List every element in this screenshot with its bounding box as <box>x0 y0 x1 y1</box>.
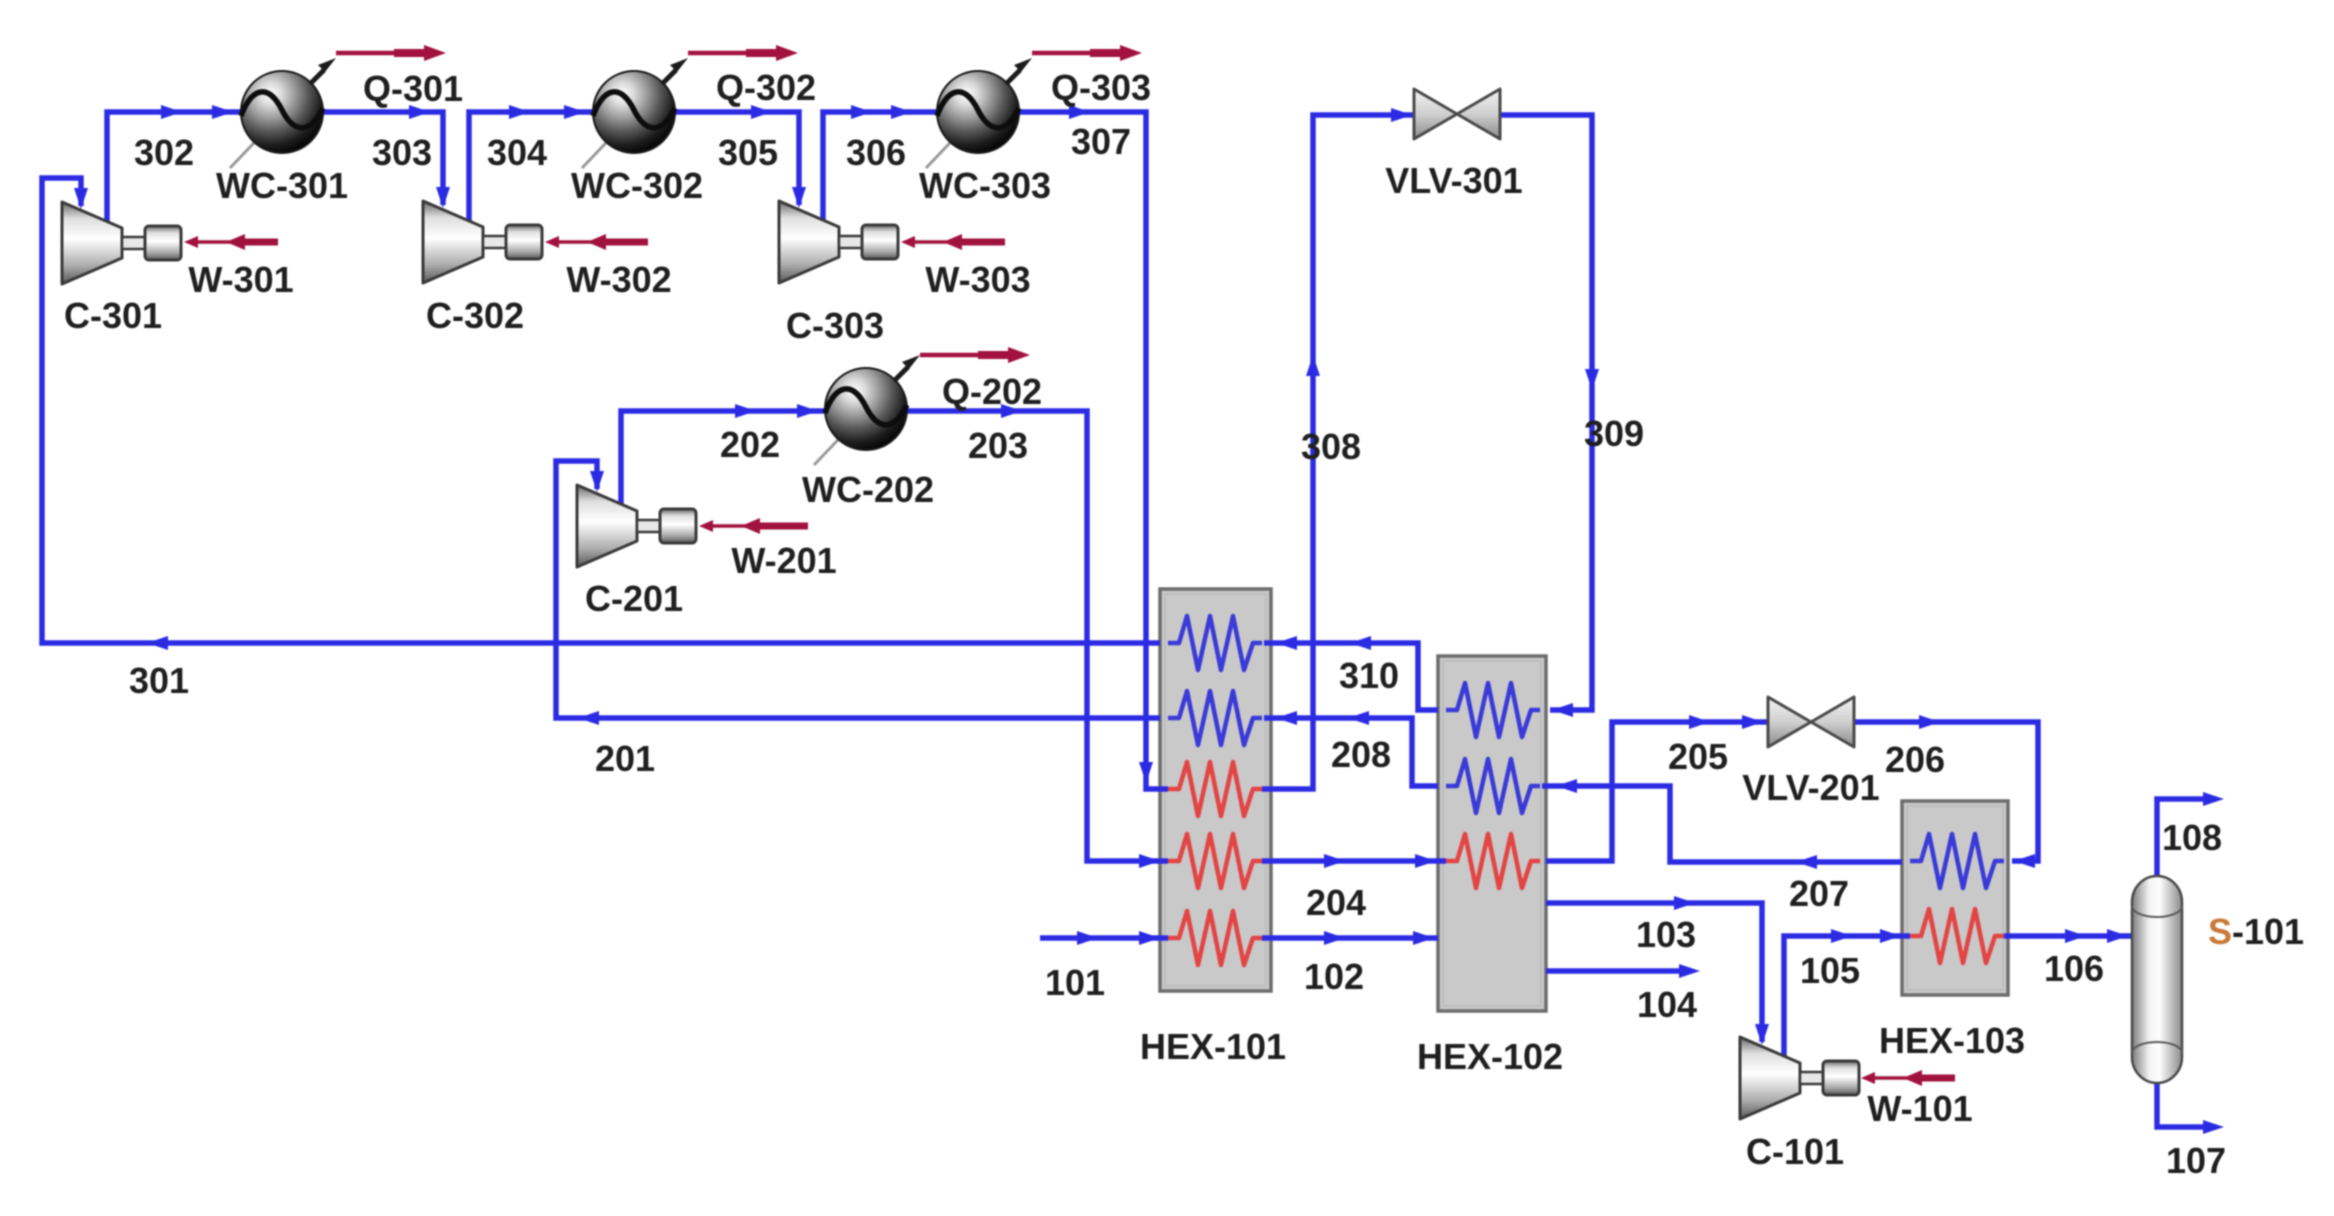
arrow 207 a <box>1796 855 1817 869</box>
svg-text:Q-302: Q-302 <box>716 67 816 108</box>
wire stream 102: HEX-101 red coil3 out to HEX-102 <box>1262 935 1438 941</box>
svg-text:205: 205 <box>1668 736 1728 777</box>
svg-text:C-101: C-101 <box>1746 1131 1844 1172</box>
HEX-101 red coil 2 (stream 203 in / 204 out) <box>1168 834 1262 888</box>
wire stream 306: C-303 out riser and run to WC-303 <box>823 112 938 221</box>
svg-text:W-101: W-101 <box>1867 1088 1972 1129</box>
HEX-102 red coil (stream 204 in / 205 out) <box>1446 834 1540 888</box>
svg-text:301: 301 <box>129 660 189 701</box>
arrow 204 b <box>1415 854 1436 868</box>
svg-text:305: 305 <box>718 132 778 173</box>
arrow 102 a <box>1324 931 1345 945</box>
svg-text:C-302: C-302 <box>426 295 524 336</box>
svg-text:102: 102 <box>1304 956 1364 997</box>
svg-text:306: 306 <box>846 132 906 173</box>
svg-text:204: 204 <box>1306 882 1366 923</box>
svg-text:309: 309 <box>1584 413 1644 454</box>
svg-text:HEX-101: HEX-101 <box>1140 1026 1286 1067</box>
arrow 306 b <box>891 105 912 119</box>
HEX-103 blue coil (stream 206 in / 207 out) <box>1910 834 2004 888</box>
svg-text:C-303: C-303 <box>786 305 884 346</box>
compressor C-301 <box>62 202 181 284</box>
wire stream 203: WC-202 out, right, down, into HEX-101 red coil 2 <box>904 411 1168 861</box>
compressor C-201 <box>577 485 696 567</box>
svg-text:WC-303: WC-303 <box>919 165 1051 206</box>
arrow 103 <box>1674 896 1695 910</box>
arrow 208 a <box>1348 711 1369 725</box>
HEX-101 blue coil 2 (stream 208 in / 201 out) <box>1168 691 1262 745</box>
arrow 201 left <box>578 711 599 725</box>
energy stream W-201 <box>699 518 808 534</box>
arrow 203 <box>1001 404 1022 418</box>
wire stream 308: HEX-101 red coil 1 out, up to VLV-301 <box>1262 115 1414 789</box>
svg-text:303: 303 <box>372 132 432 173</box>
wire stream 105: C-101 out riser to HEX-103 red coil <box>1784 936 1910 1057</box>
wire stream 301: HEX-101 coil1 out, long left run, up, into C-301 <box>42 178 1160 643</box>
arrow 302 a <box>161 105 182 119</box>
valve VLV-301 <box>1414 89 1500 139</box>
heat exchanger HEX-103 <box>1902 801 2008 995</box>
arrow 105 a <box>1831 929 1852 943</box>
arrow 104 <box>1679 964 1700 978</box>
arrow 101 a <box>1077 931 1098 945</box>
cooler WC-302 <box>582 58 688 168</box>
wire stream 305: WC-302 out, right, down into C-303 <box>674 112 799 205</box>
svg-text:Q-301: Q-301 <box>363 68 463 109</box>
compressor C-303 <box>779 201 898 283</box>
compressor C-101 <box>1740 1037 1859 1119</box>
arrow 106 a <box>2065 929 2086 943</box>
heat exchanger HEX-102 <box>1438 656 1546 1011</box>
arrow 303 <box>409 105 430 119</box>
compressor C-302 <box>423 201 542 283</box>
HEX-101 red coil 3 (stream 101 in / 102 out) <box>1168 911 1262 965</box>
arrow 206 into coil <box>2014 854 2035 868</box>
arrow 202 b <box>797 404 818 418</box>
arrow 307 <box>1069 105 1090 119</box>
valve VLV-201 <box>1768 697 1854 747</box>
svg-text:C-301: C-301 <box>64 295 162 336</box>
svg-text:206: 206 <box>1885 739 1945 780</box>
svg-text:VLV-201: VLV-201 <box>1742 767 1879 808</box>
arrow 204 a <box>1324 854 1345 868</box>
svg-text:203: 203 <box>968 425 1028 466</box>
svg-text:302: 302 <box>134 132 194 173</box>
arrow 102 b <box>1413 931 1434 945</box>
svg-text:VLV-301: VLV-301 <box>1385 160 1522 201</box>
svg-text:104: 104 <box>1637 984 1697 1025</box>
svg-text:310: 310 <box>1339 655 1399 696</box>
svg-text:202: 202 <box>720 424 780 465</box>
energy stream W-302 <box>545 234 648 250</box>
svg-text:201: 201 <box>595 738 655 779</box>
arrow 105 b <box>1880 929 1901 943</box>
svg-text:C-201: C-201 <box>585 578 683 619</box>
wire stream 106: HEX-103 red coil out to S-101 <box>2004 933 2132 939</box>
cooler WC-202 <box>814 355 920 465</box>
svg-text:307: 307 <box>1071 121 1131 162</box>
wire stream 101: feed into HEX-101 red coil 3 <box>1040 935 1168 941</box>
arrow 308 into valve <box>1391 108 1412 122</box>
arrow 304 a <box>509 105 530 119</box>
svg-text:108: 108 <box>2162 817 2222 858</box>
svg-text:W-302: W-302 <box>566 259 671 300</box>
HEX-101 red coil 1 (stream 307 in / 308 out) <box>1168 762 1262 816</box>
wire stream 207: HEX-103 blue coil out, left, up, into HEX-102 blue coil 2 <box>1542 786 1902 862</box>
arrow 309 into coil <box>1552 703 1573 717</box>
HEX-101 blue coil 1 (stream 310 in / 301 out) <box>1168 616 1262 670</box>
wire stream 104: HEX-102 out product <box>1546 968 1692 974</box>
arrow 310 a <box>1350 636 1371 650</box>
svg-text:208: 208 <box>1331 734 1391 775</box>
arrow into C-301 inlet <box>74 188 88 209</box>
HEX-102 blue coil 1 (stream 309 in / 310 out) <box>1446 683 1540 737</box>
arrow 205 a <box>1689 715 1710 729</box>
svg-text:W-301: W-301 <box>188 259 293 300</box>
svg-text:105: 105 <box>1800 950 1860 991</box>
wire stream 103: HEX-102 out, right, down into C-101 <box>1546 903 1762 1042</box>
energy stream Q-302 <box>688 45 798 61</box>
wire stream 303: WC-301 out, right, down into C-302 <box>322 112 443 205</box>
arrow 206 <box>1919 715 1940 729</box>
svg-text:107: 107 <box>2166 1140 2226 1181</box>
svg-text:HEX-102: HEX-102 <box>1417 1036 1563 1077</box>
arrow 306 a <box>851 105 872 119</box>
HEX-102 blue coil 2 (stream 207 in / 208 out) <box>1446 759 1540 813</box>
svg-text:S-101: S-101 <box>2208 911 2304 952</box>
arrow 309 down <box>1585 369 1599 390</box>
arrow 106 b <box>2107 929 2128 943</box>
arrow 307 down <box>1139 762 1153 783</box>
arrow into C-303 inlet <box>792 187 806 208</box>
svg-text:103: 103 <box>1636 914 1696 955</box>
wire stream 208: HEX-102 coil2 out, up, left into HEX-101 blue coil 2 <box>1264 718 1438 786</box>
HEX-103 red coil (stream 105 in / 106 out) <box>1910 909 2004 963</box>
arrow stream 301 left <box>147 636 168 650</box>
arrow into C-201 inlet <box>590 471 604 492</box>
wire stream 201: HEX-101 coil2 out, long left, up, into C-201 <box>556 461 1160 718</box>
energy stream W-101 <box>1861 1070 1955 1086</box>
wire stream 202: C-201 out riser and run to WC-202 <box>621 411 828 505</box>
svg-text:WC-202: WC-202 <box>802 469 934 510</box>
heat exchanger HEX-101 <box>1160 589 1271 991</box>
separator S-101 <box>2132 876 2182 1083</box>
svg-text:207: 207 <box>1789 873 1849 914</box>
cooler WC-301 <box>230 58 336 168</box>
svg-text:HEX-103: HEX-103 <box>1879 1020 2025 1061</box>
svg-text:106: 106 <box>2044 948 2104 989</box>
arrow 304 b <box>564 105 585 119</box>
wire stream 304: C-302 out riser and run to WC-302 <box>469 112 594 230</box>
arrow 107 <box>2203 1120 2224 1134</box>
energy stream W-303 <box>901 234 1005 250</box>
svg-text:Q-303: Q-303 <box>1051 67 1151 108</box>
arrow 310 b <box>1276 636 1297 650</box>
wire stream 302: C-301 out riser and run to WC-301 <box>107 112 242 222</box>
wire stream 309: VLV-301 out, right, down, into HEX-102 blue coil 1 <box>1500 115 1592 710</box>
arrow into C-302 inlet <box>436 187 450 208</box>
arrow 208 b <box>1276 711 1297 725</box>
svg-text:101: 101 <box>1045 962 1105 1003</box>
wire stream 206: VLV-201 out, right, down, into HEX-103 blue coil <box>1855 722 2038 861</box>
energy stream W-301 <box>184 234 278 250</box>
arrow into C-101 inlet <box>1755 1024 1769 1045</box>
svg-text:304: 304 <box>487 132 547 173</box>
arrow 205 b <box>1742 715 1763 729</box>
wire stream 205: HEX-102 red coil out, up, right to VLV-201 <box>1546 722 1767 861</box>
arrow 101 b <box>1139 931 1160 945</box>
wire stream 204: HEX-101 red coil2 out to HEX-102 red coil <box>1262 858 1446 864</box>
wire stream 310: HEX-102 coil1 out, up, left into HEX-101 blue coil 1 <box>1264 643 1438 710</box>
arrow 108 <box>2203 792 2224 806</box>
arrow 202 a <box>735 404 756 418</box>
svg-text:W-303: W-303 <box>925 259 1030 300</box>
arrow 207 b <box>1556 779 1577 793</box>
energy stream Q-303 <box>1032 45 1142 61</box>
wire stream 307: WC-303 out, right, long down, into HEX-101 red coil 1 <box>1018 112 1168 789</box>
energy stream Q-202 <box>920 347 1030 363</box>
arrow 308 up <box>1306 355 1320 376</box>
svg-text:WC-302: WC-302 <box>571 165 703 206</box>
wire stream 107: S-101 bottom liquid product <box>2157 1083 2216 1127</box>
arrow 203 into coil <box>1139 854 1160 868</box>
svg-text:Q-202: Q-202 <box>942 371 1042 412</box>
svg-text:W-201: W-201 <box>731 540 836 581</box>
cooler WC-303 <box>926 58 1032 168</box>
wire stream 108: S-101 top vapour product <box>2157 799 2216 876</box>
svg-text:308: 308 <box>1301 426 1361 467</box>
svg-text:WC-301: WC-301 <box>216 165 348 206</box>
arrow 302 b <box>212 105 233 119</box>
energy stream Q-301 <box>336 45 446 61</box>
arrow 305 <box>751 105 772 119</box>
